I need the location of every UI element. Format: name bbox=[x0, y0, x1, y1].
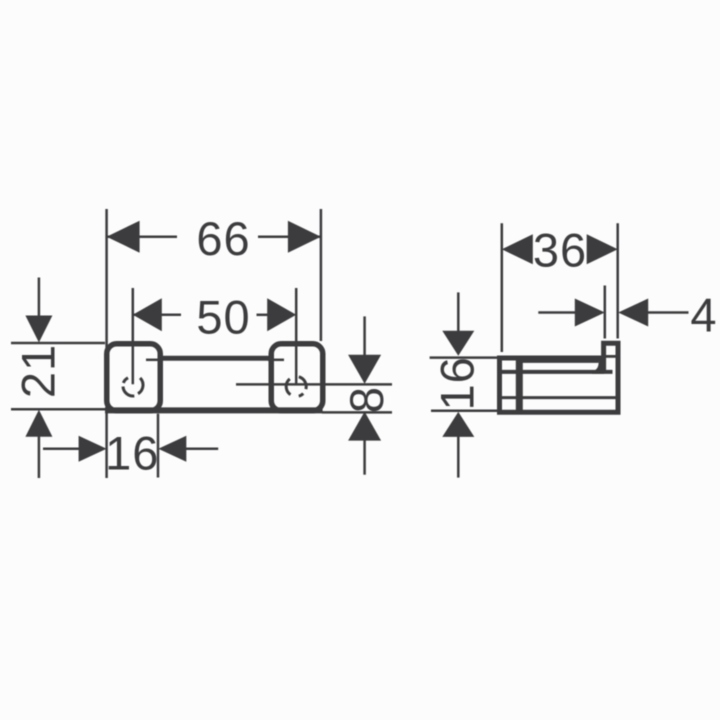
svg-text:66: 66 bbox=[196, 212, 250, 265]
dim 8: dimension line lower bbox=[363, 435, 366, 475]
dim 4 tail left bbox=[538, 311, 576, 314]
side view: left edge and top edge bbox=[500, 358, 602, 412]
svg-text:36: 36 bbox=[533, 224, 587, 277]
left screw symbol arcs bbox=[123, 378, 143, 396]
side view: slot bottom line bbox=[606, 355, 616, 358]
dim 16 side: arrow down bbox=[442, 331, 474, 356]
side view: wedge under top edge at lip bbox=[592, 361, 604, 374]
side view: inner line mid bbox=[500, 370, 613, 374]
dim 4 tail right bbox=[648, 311, 689, 314]
svg-text:50: 50 bbox=[196, 291, 250, 344]
dim 16 side: dimension line lower bbox=[457, 432, 460, 478]
dim 36 extension line left bbox=[501, 223, 504, 352]
dim 21 dimension line lower bbox=[38, 430, 41, 478]
dim 8: arrow up bbox=[348, 412, 381, 441]
side view: hook lip, nub top, right edge bbox=[604, 343, 618, 412]
dim 50 arrow left bbox=[133, 298, 162, 331]
dim 4 arrow left-pointing bbox=[618, 299, 648, 327]
front view: bar top edge bbox=[159, 356, 271, 361]
dim 21 extension line top bbox=[11, 342, 105, 345]
dim 66 extension line right bbox=[320, 209, 323, 341]
dim 4 arrow right-pointing bbox=[575, 299, 605, 327]
dim 50 extension line left (screw centerline) bbox=[132, 288, 135, 384]
side view: bottom edge bbox=[497, 410, 621, 415]
dim 8: arrow down bbox=[348, 355, 381, 384]
dim 36 arrow right bbox=[587, 234, 618, 264]
dim 16 front: arrow right-pointing bbox=[79, 436, 107, 462]
dim 21 extension line bottom bbox=[11, 408, 105, 411]
front view: bar bottom edge bbox=[105, 407, 323, 413]
dim 21 dimension line upper bbox=[38, 278, 41, 331]
dim 16 side: dimension line upper bbox=[457, 292, 460, 332]
dim 8: dimension line upper bbox=[363, 316, 366, 360]
svg-text:16: 16 bbox=[105, 427, 159, 480]
dim 16 side: arrow up bbox=[442, 412, 474, 437]
right screw symbol arcs bbox=[286, 377, 306, 396]
dim 50 line left bbox=[133, 314, 181, 317]
svg-text:16: 16 bbox=[431, 356, 484, 410]
dim 36 arrow left bbox=[502, 234, 533, 264]
dim 8: extension line bottom bbox=[322, 411, 392, 414]
dim 66 extension line left bbox=[105, 209, 108, 478]
side view: wall plate band bbox=[516, 356, 523, 414]
dim 21 arrow up bbox=[25, 410, 52, 437]
dim 50 line right bbox=[257, 314, 271, 317]
dim 8: extension line top (through right plate) bbox=[236, 383, 392, 386]
dim 66 arrow left bbox=[107, 221, 140, 253]
dim 66 line left bbox=[107, 235, 177, 238]
dim 36 extension line right bbox=[616, 223, 619, 338]
dim 16 side: extension line top bbox=[430, 356, 499, 359]
dim 16 front: extension line right bbox=[157, 414, 160, 478]
dim 4 extension line left (lip) bbox=[604, 286, 607, 339]
dim 21 arrow down bbox=[25, 316, 52, 343]
side view: inner line lower bbox=[500, 396, 616, 399]
svg-text:4: 4 bbox=[690, 289, 717, 342]
side view: inner line under top edge bbox=[522, 360, 599, 363]
svg-text:8: 8 bbox=[340, 386, 393, 413]
front view: left mounting plate bbox=[107, 344, 161, 411]
dim 16 front: tail right bbox=[184, 448, 219, 451]
front view: bar top edge tick right bbox=[268, 359, 284, 362]
dim 50 extension line right (screw centerline) bbox=[295, 288, 298, 384]
svg-text:21: 21 bbox=[12, 344, 65, 398]
dim 16 front: tail left bbox=[43, 448, 82, 451]
dim 50 arrow right bbox=[267, 298, 296, 331]
dim 16 front: arrow left-pointing bbox=[158, 436, 186, 462]
dim 66 line right bbox=[258, 235, 321, 238]
front view: right mounting plate bbox=[271, 344, 323, 411]
dim 16 side: extension line bottom bbox=[431, 410, 497, 413]
front view: bar top edge tick left bbox=[146, 359, 162, 362]
dim 66 arrow right bbox=[288, 221, 321, 253]
